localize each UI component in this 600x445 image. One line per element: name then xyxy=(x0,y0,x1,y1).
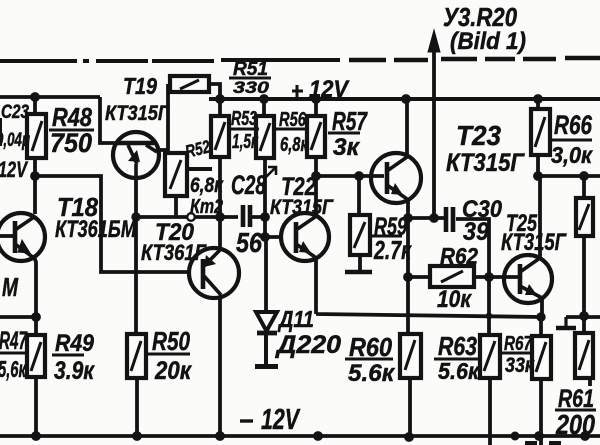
wire R48 top stub xyxy=(33,97,37,114)
svg-text:39: 39 xyxy=(463,218,489,246)
label R47 / 5,6k xyxy=(0,327,28,355)
svg-text:КТ315Г: КТ315Г xyxy=(501,229,567,256)
wire R56 top stub xyxy=(262,99,266,116)
transistor T18 xyxy=(0,213,45,261)
wire T22 base xyxy=(265,235,283,239)
wire R60 to bottom rail xyxy=(408,378,412,437)
label T22 xyxy=(281,173,316,201)
svg-text:C28: C28 xyxy=(231,170,266,200)
svg-text:R52: R52 xyxy=(183,136,212,161)
-12V bottom rail xyxy=(0,434,600,438)
resistor R61 xyxy=(575,333,593,378)
svg-text:КТ315Г: КТ315Г xyxy=(446,149,525,177)
wire T18 emitter down xyxy=(34,257,36,317)
label KT315G (T23) xyxy=(446,149,525,177)
label R53 / 1,5k xyxy=(231,108,257,130)
svg-text:R53: R53 xyxy=(231,108,257,130)
node dot R63/C30/base xyxy=(484,272,494,282)
wire T25 collector up to R66 node xyxy=(538,176,542,257)
label 0,04u xyxy=(0,130,30,151)
svg-text:56: 56 xyxy=(236,227,262,258)
label R48 / 750 xyxy=(52,102,92,132)
svg-text:12V: 12V xyxy=(261,404,301,436)
label T18 xyxy=(57,192,98,222)
resistor R48 xyxy=(27,114,46,158)
label T23 xyxy=(456,120,501,151)
svg-text:М: М xyxy=(2,272,19,302)
label R57 / 3k xyxy=(332,106,368,136)
svg-text:33к: 33к xyxy=(505,354,535,377)
label C23 xyxy=(1,102,29,123)
label R50 / 20k xyxy=(152,326,190,356)
wire base node to R62 xyxy=(408,275,430,279)
svg-text:КТ315Г: КТ315Г xyxy=(105,102,170,125)
wire R61 bottom stub xyxy=(588,378,592,386)
wire right short emitter segment xyxy=(566,315,600,319)
wire node B to T20 base xyxy=(35,176,190,272)
wire R53 bottom down to wire y216 xyxy=(218,157,222,217)
svg-text:(Bild 1): (Bild 1) xyxy=(450,28,526,55)
label T19 xyxy=(123,73,157,99)
node dot R66 bottom xyxy=(533,171,543,181)
resistor R51 (horizontal) xyxy=(170,76,209,92)
label R66 / 3,0k xyxy=(554,110,593,140)
node dot T23 emitter xyxy=(403,213,413,223)
wire T19 collector stub to R51/R52 line xyxy=(157,148,168,152)
label T20 xyxy=(155,219,195,246)
label 39 xyxy=(463,218,489,246)
wire R52 bottom stub xyxy=(174,196,178,217)
wire R66 node to right edge xyxy=(538,174,600,178)
resistor R62 (horizontal) xyxy=(430,266,474,287)
node dot rail x515 xyxy=(511,432,520,441)
top border dashed line xyxy=(0,60,340,61)
node dot rail x318 xyxy=(313,431,323,441)
wire y216 signal (T19 emitter row) xyxy=(136,215,264,219)
wire R57 bottom to wire A xyxy=(314,157,318,176)
label R60 / 5,6k xyxy=(349,332,392,362)
label R61 / 200 xyxy=(558,385,594,413)
node dot T23 collector on +12V xyxy=(401,94,411,104)
+12V rail xyxy=(209,97,600,101)
svg-text:КТ361БМ: КТ361БМ xyxy=(55,216,137,243)
wire R59 bottom stub and end bar xyxy=(345,255,372,272)
diode D11 xyxy=(255,312,278,367)
wire T23 collector to +12V xyxy=(405,99,409,156)
wire R63 vertical down xyxy=(487,277,491,335)
label 10k xyxy=(437,286,473,313)
label R59 / 2,7k xyxy=(374,213,407,241)
wire R51 left vertical xyxy=(166,84,170,153)
label C30 xyxy=(462,196,503,223)
label M fragment xyxy=(2,272,19,302)
svg-text:Т23: Т23 xyxy=(456,120,501,151)
resistor R53 xyxy=(211,116,229,157)
wire R57 top stub xyxy=(314,99,318,116)
wire R62 to T25 base xyxy=(474,275,519,279)
svg-text:R66: R66 xyxy=(554,110,593,140)
wire R48 bottom to node B xyxy=(33,158,37,176)
wire T22 collector up to wire A xyxy=(314,176,318,215)
wire T22 emitter down and emitter rail to T25 xyxy=(316,256,541,317)
transistor T25 xyxy=(504,255,552,303)
node dot on +12V (R56) xyxy=(259,94,269,104)
wire node B down to T18 collector xyxy=(33,176,37,214)
node dot base wire left xyxy=(403,272,413,282)
resistor R63 xyxy=(480,335,500,378)
node dot C xyxy=(31,312,41,322)
node label У3.R20 xyxy=(443,2,517,32)
node dot on +12V (R51/R53) xyxy=(215,94,225,104)
wire T23 emitter vertical to R60 xyxy=(406,218,410,334)
selection mark near C28 xyxy=(265,167,276,178)
node dot (x265 y216) xyxy=(260,212,270,222)
label T25 xyxy=(506,210,537,237)
node dot rail x36 xyxy=(31,431,41,441)
svg-text:12V: 12V xyxy=(0,157,29,182)
wire T25 emitter down xyxy=(540,297,544,317)
node dot (x220 y216) xyxy=(215,212,225,222)
node dot wire A at R59 xyxy=(354,171,364,181)
node dot (x265 y237) T22 base xyxy=(260,232,270,242)
node dot R66 top on +12V xyxy=(533,94,543,104)
wire T19 emitter down to R50 xyxy=(134,178,138,334)
svg-text:Д11: Д11 xyxy=(277,306,314,332)
resistor R67 xyxy=(532,336,551,379)
node dot rail x220 xyxy=(215,431,225,441)
capacitor C28 xyxy=(243,205,250,227)
wire T23 emitter down xyxy=(406,199,410,218)
label D11 xyxy=(277,306,314,332)
capacitor C30 xyxy=(446,207,453,232)
label KT315G (T19) xyxy=(105,102,170,125)
node dot rail x409 xyxy=(404,432,414,442)
wire to R49 xyxy=(34,317,38,335)
termination tap symbol xyxy=(556,317,576,328)
label R63 / 5,6k xyxy=(438,331,477,361)
label -12V xyxy=(240,404,301,436)
wire from R47 (left edge) xyxy=(0,315,36,319)
svg-text:Т19: Т19 xyxy=(123,73,157,99)
node dot U3 line joins wire B xyxy=(429,213,439,223)
wire R49 to bottom rail xyxy=(34,377,38,436)
resistor R59 xyxy=(350,215,370,255)
resistor R64 (unlabeled right) xyxy=(576,198,593,236)
wire A: T22 collector to T23 base xyxy=(316,174,384,178)
svg-text:3,0к: 3,0к xyxy=(551,142,593,168)
node dot right branch xyxy=(579,171,589,181)
label R62 xyxy=(440,243,478,269)
svg-text:6,8к: 6,8к xyxy=(280,134,309,156)
node dot rail x137 xyxy=(132,431,142,441)
label +12V xyxy=(292,76,350,103)
resistor R60 xyxy=(400,334,421,378)
wire T20 emitter top stub xyxy=(218,217,222,249)
label R51 / 330 xyxy=(233,59,268,80)
wire R53 top stub xyxy=(218,99,222,116)
label C28 xyxy=(231,170,266,200)
wire R56 bottom to T22 base node xyxy=(263,158,267,237)
wire diode branch from T22 base node xyxy=(264,237,268,311)
node label (Bild 1) xyxy=(450,28,526,55)
node dot B (T18 collector node) xyxy=(30,171,40,181)
svg-text:R50: R50 xyxy=(152,326,190,356)
node dot rail x539 xyxy=(534,431,544,441)
label KT315G (T25) xyxy=(501,229,567,256)
bottom page fragment mark 2 xyxy=(549,441,561,445)
wire right branch continues down xyxy=(582,236,586,333)
label KT315G (T22) xyxy=(270,196,334,219)
label R49 / 3,9k xyxy=(55,330,95,357)
wire R59 top stub xyxy=(357,176,361,214)
svg-text:5.6к: 5.6к xyxy=(348,360,396,387)
wire R66 bottom to node xyxy=(536,155,540,176)
svg-text:R49: R49 xyxy=(55,330,95,357)
wire R51 right to +12V rail xyxy=(209,84,220,99)
label R67 / 33k xyxy=(504,333,533,355)
wire R66 top stub xyxy=(536,99,540,109)
label Kt2 xyxy=(190,196,223,218)
wire R63 to bottom rail xyxy=(488,378,492,445)
resistor R56 xyxy=(256,116,274,158)
svg-text:750: 750 xyxy=(50,128,92,158)
wire to У3.R20 with up arrow xyxy=(428,30,440,219)
svg-text:3к: 3к xyxy=(333,134,361,161)
label KT361BM xyxy=(55,216,137,243)
test point Kt2 open circle xyxy=(187,213,195,221)
node dot on +12V (R57) xyxy=(311,94,321,104)
transistor T23 xyxy=(371,153,421,203)
wire B: emitter to C30 xyxy=(408,216,444,220)
bottom page fragment mark 1 xyxy=(525,441,537,445)
label 12V xyxy=(0,157,29,182)
node dot wire A left xyxy=(311,171,321,181)
node small dot R63 crosses emitter rail xyxy=(486,313,493,320)
label 56 xyxy=(236,227,262,258)
resistor R57 xyxy=(307,116,325,157)
node dot T25 emitter junction xyxy=(536,312,545,321)
wire T20 collector to bottom rail xyxy=(218,297,222,436)
wire R67 to bottom rail xyxy=(539,379,543,445)
label 6,8k (R52) xyxy=(190,174,224,197)
svg-text:R63: R63 xyxy=(438,331,477,361)
node dot A (R48 top) xyxy=(30,92,40,102)
transistor T20 xyxy=(189,248,239,298)
resistor R49 xyxy=(27,335,45,377)
svg-text:10к: 10к xyxy=(437,286,473,313)
svg-text:КТ315Г: КТ315Г xyxy=(270,196,334,219)
wire R50 to bottom rail xyxy=(135,378,139,436)
transistor T19 xyxy=(113,132,159,178)
node dot (x136 y216) xyxy=(131,212,140,221)
transistor T22 xyxy=(281,213,329,261)
node dot right at emitter level xyxy=(579,311,589,321)
wire right branch down to resistor xyxy=(582,176,586,198)
node dot rail x585 xyxy=(580,431,590,441)
svg-text:5,6к: 5,6к xyxy=(0,356,27,382)
label KT361G (T20) xyxy=(141,240,207,265)
resistor R66 xyxy=(531,109,550,155)
svg-text:Д220: Д220 xyxy=(275,331,341,359)
resistor R52 xyxy=(165,153,187,196)
wire left input to R48 top node and T19 base xyxy=(0,97,115,143)
capacitor C23 (cut at edge) xyxy=(0,118,2,146)
svg-text:3.9к: 3.9к xyxy=(54,357,95,385)
wire C30 right, corner down to base node xyxy=(456,219,489,277)
svg-text:20к: 20к xyxy=(154,357,192,385)
svg-text:R47: R47 xyxy=(0,327,28,355)
resistor R50 xyxy=(127,334,146,378)
label D220 xyxy=(275,331,341,359)
svg-text:5.6к: 5.6к xyxy=(438,358,480,384)
svg-text:R62: R62 xyxy=(440,243,478,269)
wire to R67 xyxy=(539,317,543,336)
label R56 / 6,8k xyxy=(279,109,307,131)
label R52 xyxy=(183,136,212,161)
